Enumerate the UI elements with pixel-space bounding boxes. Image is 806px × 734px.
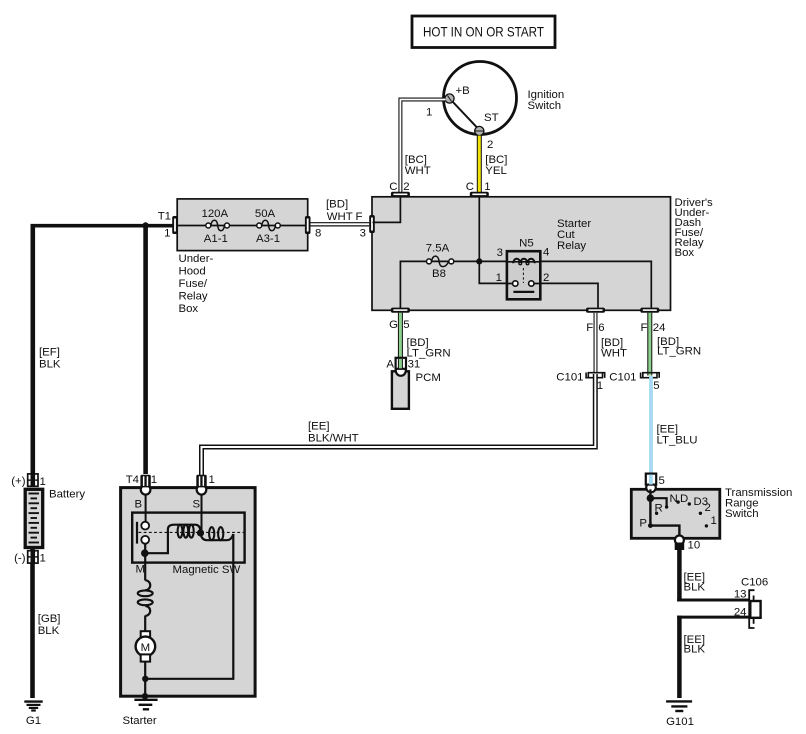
box HOT IN ON OR START <box>412 16 555 48</box>
magnetic coil <box>168 525 201 531</box>
relay armature dashed link <box>522 268 524 283</box>
connector C101 pin1 <box>588 373 604 378</box>
svg-text:WHT: WHT <box>405 165 431 177</box>
svg-text:M: M <box>136 564 146 576</box>
wire coil to motor <box>144 616 146 632</box>
ground G1 <box>24 700 42 702</box>
svg-text:C101: C101 <box>609 372 636 384</box>
svg-text:YEL: YEL <box>485 165 507 177</box>
svg-text:N: N <box>670 493 678 505</box>
wire node to pin1 of relay <box>479 261 507 283</box>
battery (+) connector <box>28 474 38 486</box>
fuse 50A A3-1 <box>257 223 262 228</box>
svg-text:1: 1 <box>151 474 157 486</box>
svg-text:Relay: Relay <box>557 240 586 252</box>
ignition ST contact <box>475 126 484 135</box>
svg-text:G: G <box>389 319 398 331</box>
svg-text:Under-: Under- <box>179 253 214 265</box>
contact plate <box>136 522 138 544</box>
svg-text:1: 1 <box>164 228 170 240</box>
svg-text:BLK: BLK <box>684 581 706 593</box>
svg-text:5: 5 <box>659 475 665 487</box>
svg-text:G101: G101 <box>666 716 694 728</box>
svg-text:LT_BLU: LT_BLU <box>657 435 698 447</box>
wire [BD] LT_GRN G5 to PCM <box>398 313 403 369</box>
svg-text:BLK: BLK <box>39 359 61 371</box>
junction at box edge <box>142 693 148 699</box>
svg-text:WHT: WHT <box>601 348 627 360</box>
connector C101 pin5 <box>643 373 659 378</box>
svg-text:3: 3 <box>497 247 503 259</box>
svg-text:50A: 50A <box>255 208 276 220</box>
svg-text:1: 1 <box>711 515 717 527</box>
svg-text:5: 5 <box>403 319 409 331</box>
svg-text:8: 8 <box>315 228 321 240</box>
svg-text:[BD]: [BD] <box>326 199 348 211</box>
svg-text:F: F <box>641 322 648 334</box>
wire [BC] WHT from +B to C2 <box>400 100 445 193</box>
svg-text:Relay: Relay <box>179 291 208 303</box>
wire coil end down right side <box>148 534 233 679</box>
wire [EE] LT_BLU C101 to TRS <box>649 376 653 474</box>
svg-text:C101: C101 <box>556 372 583 384</box>
ground starter <box>134 699 157 701</box>
svg-text:2: 2 <box>487 139 493 151</box>
svg-text:Magnetic SW: Magnetic SW <box>173 564 241 576</box>
svg-text:R: R <box>655 503 663 515</box>
wire fuse line under-hood <box>177 225 308 227</box>
svg-text:1: 1 <box>209 474 215 486</box>
svg-text:10: 10 <box>688 540 701 552</box>
wire relay pin2 to F6 <box>539 283 598 307</box>
svg-text:7.5A: 7.5A <box>426 243 450 255</box>
connector F24 <box>640 308 659 313</box>
wire [BC] YEL from ST to C1 <box>477 136 482 193</box>
svg-text:C: C <box>466 181 474 193</box>
svg-text:HOT IN ON OR START: HOT IN ON OR START <box>423 24 544 40</box>
junction below motor <box>142 676 148 682</box>
junction T4 branch <box>142 222 148 228</box>
fuse 120A A1-1 <box>206 223 211 228</box>
connector G5 <box>391 308 410 313</box>
wire ignition lever <box>452 101 478 129</box>
ground G101 <box>666 700 692 702</box>
wire C2 to F3 internal <box>373 197 401 222</box>
relay N5 <box>507 251 540 299</box>
connector TRS pin10 <box>675 536 684 545</box>
wire [EE] BLK C106 to G101 <box>677 616 749 619</box>
connector C2 <box>391 192 410 197</box>
svg-text:[EF]: [EF] <box>39 347 60 359</box>
svg-text:1: 1 <box>40 553 46 565</box>
svg-text:G1: G1 <box>26 715 41 727</box>
wire [BD] WHT pin8 to pin3 <box>311 222 370 226</box>
svg-text:3: 3 <box>360 228 366 240</box>
svg-text:+B: +B <box>456 85 470 97</box>
svg-text:D: D <box>680 493 688 505</box>
svg-text:WHT: WHT <box>327 211 353 223</box>
svg-text:BLK: BLK <box>684 644 706 656</box>
svg-text:120A: 120A <box>201 208 228 220</box>
PCM box <box>392 371 409 409</box>
connector F3 <box>369 215 375 233</box>
wire relay pin4 to F24 <box>539 261 651 307</box>
svg-text:4: 4 <box>543 247 549 259</box>
svg-text:PCM: PCM <box>416 372 441 384</box>
relay internal pin lines <box>507 262 540 284</box>
svg-text:A1-1: A1-1 <box>204 233 228 245</box>
svg-text:1: 1 <box>496 272 502 284</box>
svg-text:1: 1 <box>40 476 46 488</box>
junction M node <box>141 549 149 557</box>
svg-text:LT_GRN: LT_GRN <box>657 346 701 358</box>
relay coil <box>513 259 534 264</box>
svg-text:Switch: Switch <box>528 100 562 112</box>
svg-text:(+): (+) <box>11 476 25 488</box>
svg-text:[EE]: [EE] <box>308 421 330 433</box>
battery (-) connector <box>28 551 38 563</box>
box Transmission Range Switch <box>631 489 720 538</box>
battery body <box>25 489 43 547</box>
svg-text:C106: C106 <box>741 577 768 589</box>
starter coil vertical <box>145 580 150 590</box>
connector S term <box>197 485 207 495</box>
svg-text:F: F <box>356 211 363 223</box>
svg-text:BLK/WHT: BLK/WHT <box>308 433 359 445</box>
svg-text:13: 13 <box>734 589 747 601</box>
ignition switch circle <box>444 62 517 135</box>
wire [EE] BLK TRS to C106 <box>677 548 682 602</box>
TRS internals <box>649 489 651 498</box>
connector T4 <box>141 485 151 495</box>
connector C1 <box>470 192 489 197</box>
svg-text:A: A <box>386 359 394 371</box>
wire B to contact <box>145 494 147 522</box>
svg-text:T4: T4 <box>126 474 139 486</box>
magnetic SW box <box>132 513 244 563</box>
svg-text:[GB]: [GB] <box>38 613 61 625</box>
connector T1 <box>172 216 178 234</box>
svg-text:1: 1 <box>484 181 490 193</box>
svg-text:ST: ST <box>484 112 499 124</box>
ignition +B contact <box>445 94 454 103</box>
wire [EE] BLK/WHT C101 to starter S <box>202 374 596 476</box>
svg-text:2: 2 <box>543 272 549 284</box>
svg-text:5: 5 <box>653 380 659 392</box>
svg-text:Hood: Hood <box>179 266 206 278</box>
wire contact to M <box>144 544 146 563</box>
relay contact pins <box>513 281 518 286</box>
svg-text:Starter: Starter <box>123 715 157 727</box>
svg-text:Box: Box <box>675 247 695 259</box>
contact circles <box>141 522 149 530</box>
svg-text:C: C <box>389 181 397 193</box>
node junction yellow/fuse/relay <box>476 258 482 264</box>
wire branch to starter B <box>143 226 148 475</box>
svg-text:BLK: BLK <box>38 625 60 637</box>
box Under-Hood Fuse/Relay Box <box>177 199 308 251</box>
motor brushes and M circle <box>141 631 150 638</box>
svg-text:B: B <box>135 499 143 511</box>
svg-text:(-): (-) <box>14 553 26 565</box>
wire M node to coil start <box>145 530 168 554</box>
svg-text:24: 24 <box>653 322 666 334</box>
svg-text:M: M <box>141 642 151 654</box>
svg-text:P: P <box>639 518 647 530</box>
svg-text:Box: Box <box>179 303 199 315</box>
svg-text:S: S <box>193 499 201 511</box>
dashed armature axis <box>139 531 245 533</box>
relay contact bar <box>513 291 534 293</box>
svg-text:N5: N5 <box>519 238 534 250</box>
wire fuse B8 line and G5 drop <box>400 261 507 310</box>
svg-text:6: 6 <box>598 322 604 334</box>
box Starter <box>121 488 256 697</box>
svg-text:Switch: Switch <box>725 508 759 520</box>
svg-text:A3-1: A3-1 <box>256 233 280 245</box>
svg-text:2: 2 <box>705 502 711 514</box>
svg-text:Battery: Battery <box>49 489 85 501</box>
svg-text:B8: B8 <box>432 268 446 280</box>
connector A31 <box>396 366 406 376</box>
connector pin 8 <box>305 216 311 234</box>
svg-text:31: 31 <box>408 359 421 371</box>
svg-text:1: 1 <box>426 107 432 119</box>
connector TRS pin5 <box>646 483 656 493</box>
wire M down <box>144 562 146 581</box>
svg-text:F: F <box>586 322 593 334</box>
wire [BD] LT_GRN F24 to C101 <box>647 313 652 376</box>
wire battery feed thick left <box>30 224 35 474</box>
wire C1 to node internal <box>478 197 480 261</box>
svg-text:2: 2 <box>403 181 409 193</box>
wire battery negative down <box>30 549 35 698</box>
svg-text:Fuse/: Fuse/ <box>179 278 208 290</box>
connector F6 <box>586 308 605 313</box>
wire motor to ground <box>144 662 146 699</box>
wire S to coil <box>201 494 203 533</box>
svg-text:T1: T1 <box>158 211 171 223</box>
box Driver's Under-Dash Fuse/Relay Box <box>372 197 671 310</box>
fuse 7.5A B8 <box>427 259 432 264</box>
wire [BD] WHT F6 to C101 <box>594 313 598 373</box>
